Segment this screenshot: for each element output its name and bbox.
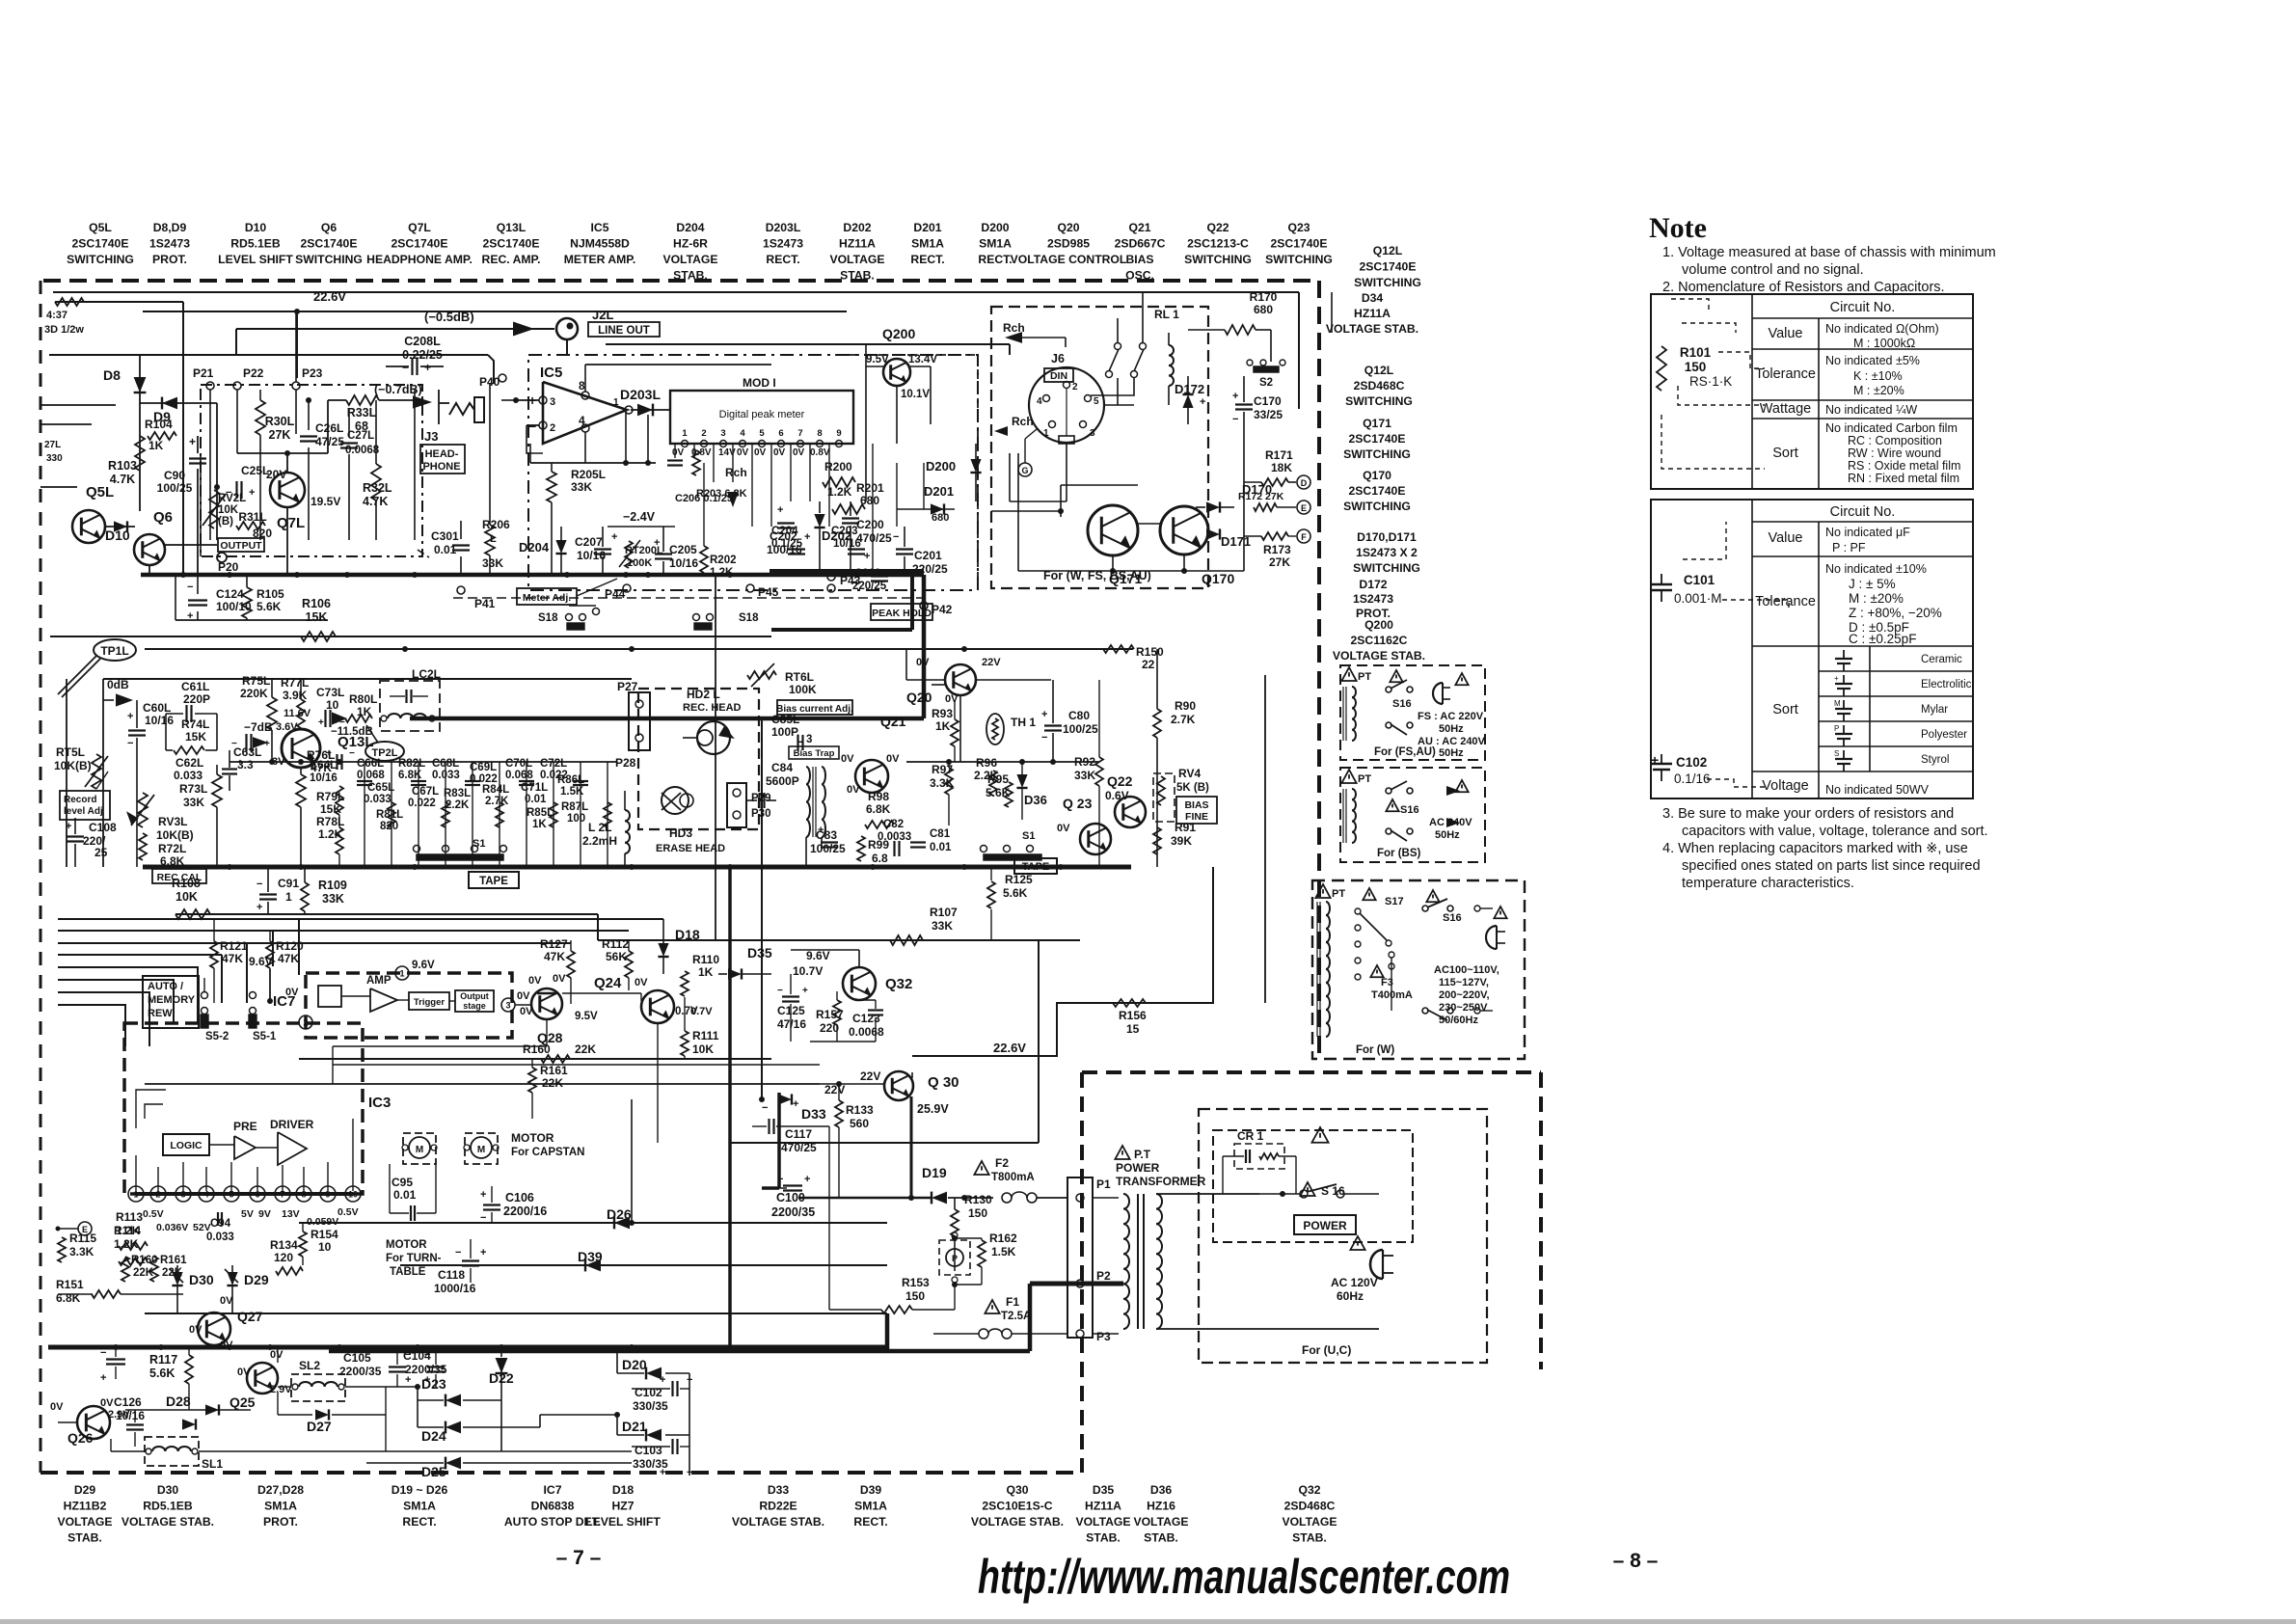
node TAPE label <box>469 872 519 888</box>
svg-text:Sort: Sort <box>1772 702 1798 717</box>
resistor R157 <box>816 991 844 1042</box>
resistor R201 <box>832 481 884 514</box>
svg-text:P29: P29 <box>751 793 770 804</box>
svg-text:K : ±10%: K : ±10% <box>1853 369 1903 383</box>
svg-text:SWITCHING: SWITCHING <box>67 253 134 266</box>
svg-text:RT6L: RT6L <box>785 670 814 684</box>
svg-text:R110: R110 <box>692 953 719 966</box>
svg-text:15K: 15K <box>185 730 206 744</box>
plug w <box>1486 907 1507 949</box>
for-bs dashed box <box>1340 768 1485 862</box>
svg-text:0V: 0V <box>754 447 767 458</box>
svg-text:0V: 0V <box>270 1349 284 1361</box>
node Q6 header label <box>295 221 363 266</box>
svg-text:Q12L: Q12L <box>1364 364 1394 377</box>
svg-text:0V: 0V <box>916 657 930 668</box>
capacitor C61L <box>166 680 217 722</box>
svg-text:10.1V: 10.1V <box>901 389 930 400</box>
svg-text:R78L: R78L <box>316 815 344 828</box>
svg-text:10/16: 10/16 <box>669 556 698 570</box>
capacitor C106 <box>480 1186 547 1224</box>
for-fsau dashed box <box>1340 665 1485 760</box>
node PEAK HOLD label <box>871 604 932 620</box>
inductor SL2 dashed <box>278 1359 420 1401</box>
svg-text:D170,D171: D170,D171 <box>1357 530 1417 544</box>
svg-text:50Hz: 50Hz <box>1439 723 1464 735</box>
svg-text:S16: S16 <box>1443 912 1462 924</box>
svg-text:2200/16: 2200/16 <box>503 1204 547 1218</box>
svg-text:SWITCHING: SWITCHING <box>1343 447 1411 461</box>
note table 2 headers <box>1755 504 1895 794</box>
svg-text:9V: 9V <box>258 1208 271 1220</box>
svg-text:LOGIC: LOGIC <box>170 1140 203 1151</box>
svg-text:0.5V: 0.5V <box>338 1206 359 1218</box>
svg-text:Q200: Q200 <box>882 326 915 341</box>
node bs voltages <box>1429 817 1472 841</box>
svg-text:P45: P45 <box>758 585 779 599</box>
svg-text:VOLTAGE: VOLTAGE <box>1133 1515 1188 1529</box>
svg-text:P: P <box>1834 724 1839 733</box>
svg-text:D200: D200 <box>981 221 1009 234</box>
node D34 label <box>1326 291 1418 336</box>
node POWER label <box>1294 1215 1356 1234</box>
svg-text:P22: P22 <box>243 366 264 380</box>
capacitor C301 <box>418 521 470 575</box>
resistor R104 <box>145 418 176 452</box>
schematic dashed border bottom <box>41 1471 1082 1475</box>
svg-text:D27,D28: D27,D28 <box>257 1483 304 1497</box>
svg-text:−: − <box>777 986 783 996</box>
transistor Q171 <box>1088 505 1142 586</box>
svg-text:2200/35: 2200/35 <box>771 1205 815 1219</box>
wire q32 net <box>791 950 876 1042</box>
switch S1 left <box>414 838 507 860</box>
svg-text:SL2: SL2 <box>299 1359 320 1372</box>
head HD2L <box>683 688 742 754</box>
svg-text:IC5: IC5 <box>591 221 609 234</box>
svg-text:0.059V: 0.059V <box>307 1216 338 1228</box>
svg-text:R121: R121 <box>220 939 248 953</box>
switch bs S16 <box>1386 780 1469 841</box>
svg-text:R95: R95 <box>987 772 1009 786</box>
node Q12L header label <box>1354 244 1421 289</box>
svg-text:For (U,C): For (U,C) <box>1302 1343 1351 1357</box>
svg-text:2SD468C: 2SD468C <box>1354 379 1405 392</box>
transistor Q24 <box>594 975 698 1023</box>
svg-text:TAPE: TAPE <box>1022 861 1050 873</box>
wire long rail 4 <box>58 955 222 1003</box>
svg-text:F2: F2 <box>995 1156 1009 1170</box>
svg-text:10/16: 10/16 <box>310 772 338 784</box>
svg-text:LEVEL SHIFT: LEVEL SHIFT <box>218 253 293 266</box>
diode D24 <box>418 1387 540 1444</box>
svg-text:+: + <box>804 1174 810 1185</box>
resistor R105 <box>242 575 284 620</box>
for-wfsbsau dashed box <box>991 307 1208 588</box>
wire Q7L collector <box>237 450 328 575</box>
svg-text:0V: 0V <box>528 975 542 987</box>
svg-text:SWITCHING: SWITCHING <box>295 253 363 266</box>
wire ic5 top <box>585 365 771 392</box>
node PRE label <box>233 1120 257 1133</box>
svg-text:3.3: 3.3 <box>237 758 254 771</box>
svg-text:S5-2: S5-2 <box>205 1031 229 1042</box>
svg-text:0V: 0V <box>841 753 854 765</box>
svg-text:C82: C82 <box>883 819 904 830</box>
capacitor C64L <box>310 748 355 784</box>
svg-text:Q26: Q26 <box>68 1430 94 1446</box>
page number 8 <box>1613 1550 1659 1572</box>
node D18 footer label <box>585 1483 661 1529</box>
svg-text:S18: S18 <box>538 612 558 624</box>
svg-text:STAB.: STAB. <box>1292 1531 1327 1545</box>
svg-text:1K: 1K <box>698 965 714 979</box>
svg-text:REC. HEAD: REC. HEAD <box>683 702 742 714</box>
node For WFSBSAU label <box>1043 569 1151 582</box>
svg-text:560: 560 <box>850 1117 869 1130</box>
capacitor C209 <box>852 568 888 592</box>
svg-text:10K: 10K <box>692 1042 714 1056</box>
note item 3 <box>1662 806 1988 839</box>
svg-text:D28: D28 <box>166 1394 191 1409</box>
capacitor C203 <box>831 526 870 562</box>
svg-text:19.5V: 19.5V <box>311 495 340 508</box>
wire ic3 internals <box>136 1090 353 1191</box>
svg-text:C73L: C73L <box>316 686 344 699</box>
svg-text:C203: C203 <box>831 526 858 537</box>
diode D27 <box>278 1387 386 1451</box>
svg-text:C205: C205 <box>669 543 697 556</box>
svg-text:R103: R103 <box>108 459 137 473</box>
node LINE OUT label <box>588 322 660 337</box>
svg-text:IC7: IC7 <box>544 1483 562 1497</box>
node Q20 header label <box>1011 221 1127 266</box>
wire for-w stub <box>1331 292 1333 333</box>
svg-text:R202: R202 <box>710 555 737 566</box>
ic7 internals <box>299 960 515 1029</box>
inductor SL1 dashed <box>111 1437 632 1471</box>
svg-text:25.9V: 25.9V <box>917 1102 949 1116</box>
svg-text:VOLTAGE STAB.: VOLTAGE STAB. <box>732 1515 824 1529</box>
for-w dashed box <box>1312 880 1525 1059</box>
svg-text:S1: S1 <box>473 838 485 850</box>
svg-text:50Hz: 50Hz <box>1439 747 1464 759</box>
svg-text:0dB: 0dB <box>107 678 129 691</box>
svg-text:C60L: C60L <box>143 701 171 715</box>
svg-text:No indicated 50WV: No indicated 50WV <box>1825 783 1930 797</box>
svg-text:R107: R107 <box>930 906 958 919</box>
wire q200 rail <box>606 344 1010 355</box>
svg-text:5.6K: 5.6K <box>1003 886 1028 900</box>
svg-text:FS : AC 220V: FS : AC 220V <box>1418 711 1484 722</box>
svg-text:22V: 22V <box>824 1083 845 1096</box>
svg-text:Bias Trap: Bias Trap <box>794 748 835 759</box>
wire ic7 band bottom <box>299 1058 771 1060</box>
svg-text:2SC1162C: 2SC1162C <box>1351 634 1408 647</box>
node Q5L header label <box>67 221 134 266</box>
svg-text:Q200: Q200 <box>1364 618 1393 632</box>
svg-text:SM1A: SM1A <box>854 1500 887 1513</box>
note table 1 values <box>1825 322 1960 485</box>
wire record mid rail <box>230 759 617 765</box>
svg-text:R173: R173 <box>1263 543 1291 556</box>
node D36 footer label <box>1133 1483 1188 1545</box>
svg-text:+: + <box>1651 752 1659 768</box>
diode D30 small <box>170 1265 214 1313</box>
svg-text:2SD985: 2SD985 <box>1047 237 1090 251</box>
resistor R150 <box>1103 645 1164 671</box>
svg-text:33K: 33K <box>482 556 503 570</box>
svg-text:TRANSFORMER: TRANSFORMER <box>1116 1175 1206 1188</box>
svg-text:27K: 27K <box>1269 555 1290 569</box>
op-amp IC5 <box>528 379 633 444</box>
wire meter bottom rail <box>530 410 656 466</box>
svg-text:Wattage: Wattage <box>1760 401 1811 417</box>
svg-text:−2.4V: −2.4V <box>623 510 656 524</box>
svg-text:Note: Note <box>1649 212 1707 244</box>
wire q170 nets <box>991 453 1244 574</box>
arrow -0.5dB <box>424 310 534 337</box>
diode D33 <box>762 1094 826 1122</box>
svg-text:470/25: 470/25 <box>856 531 892 545</box>
resistor R125 <box>987 867 1033 940</box>
svg-text:LC2L: LC2L <box>412 667 441 681</box>
svg-text:0.022: 0.022 <box>408 798 436 809</box>
svg-text:R162: R162 <box>989 1232 1017 1245</box>
diode D170 <box>1196 482 1272 513</box>
node D27,D28 footer label <box>257 1483 304 1529</box>
svg-text:P3: P3 <box>1096 1330 1111 1343</box>
note table 2 frame <box>1651 500 1973 798</box>
svg-text:temperature characteristics.: temperature characteristics. <box>1682 876 1854 891</box>
wire output box right <box>201 390 415 556</box>
svg-text:R109: R109 <box>318 879 347 892</box>
svg-text:100/25: 100/25 <box>810 842 846 855</box>
svg-text:SWITCHING: SWITCHING <box>1343 500 1411 513</box>
svg-text:100/10: 100/10 <box>216 600 252 613</box>
svg-text:6.8K: 6.8K <box>160 854 185 868</box>
svg-text:C65L: C65L <box>367 782 394 794</box>
svg-text:SM1A: SM1A <box>403 1500 436 1513</box>
svg-text:RECT.: RECT. <box>853 1515 887 1529</box>
svg-text:C102: C102 <box>635 1386 662 1399</box>
svg-text:1S2473: 1S2473 <box>763 237 803 251</box>
node 22.6V label <box>313 289 346 304</box>
node Rch meter <box>725 466 747 507</box>
svg-text:specified ones stated on parts: specified ones stated on parts list sinc… <box>1682 858 1981 874</box>
svg-text:C208L: C208L <box>404 335 441 348</box>
svg-text:HEADPHONE AMP.: HEADPHONE AMP. <box>366 253 473 266</box>
svg-text:Q5L: Q5L <box>89 221 112 234</box>
svg-text:1: 1 <box>613 397 619 408</box>
svg-text:C71L: C71L <box>521 782 548 794</box>
svg-text:R98: R98 <box>868 790 889 803</box>
resistor R154 <box>299 1223 338 1265</box>
diode D201 <box>897 484 955 524</box>
svg-text:RW : Wire wound: RW : Wire wound <box>1848 447 1941 460</box>
wire Q6 net <box>149 545 217 575</box>
resistor R75L <box>240 674 277 762</box>
node MOTOR For CAPSTAN <box>511 1131 584 1158</box>
svg-text:RECT.: RECT. <box>978 253 1012 266</box>
node D33 footer label <box>732 1483 824 1529</box>
svg-text:F: F <box>1301 532 1307 542</box>
wire r105 rail <box>176 575 328 620</box>
svg-text:RV2L: RV2L <box>218 493 246 504</box>
switch S5-1 <box>249 992 277 1043</box>
resistor R205L <box>547 463 606 575</box>
svg-text:RECT.: RECT. <box>402 1515 436 1529</box>
svg-text:Electrolitic: Electrolitic <box>1921 679 1972 690</box>
note table 1 frame <box>1651 294 1973 489</box>
svg-text:+: + <box>424 361 431 374</box>
svg-text:RD5.1EB: RD5.1EB <box>230 237 281 251</box>
svg-text:−: − <box>528 419 536 434</box>
switch S18 left <box>538 606 600 630</box>
node D19 ~ D26 footer label <box>392 1483 448 1529</box>
trimmer RT200L <box>619 540 663 569</box>
svg-text:D18: D18 <box>612 1483 635 1497</box>
node Q30 footer label <box>971 1483 1064 1529</box>
svg-text:DRIVER: DRIVER <box>270 1118 314 1131</box>
node D204 header label <box>662 221 717 283</box>
resistor R170 <box>1188 290 1278 362</box>
svg-text:S17: S17 <box>1385 896 1404 907</box>
svg-text:F1: F1 <box>1006 1295 1019 1309</box>
svg-text:0V: 0V <box>1057 823 1070 834</box>
node D9 label <box>153 409 171 424</box>
node P21 P22 P23 <box>193 311 323 540</box>
capacitor C200 <box>842 501 892 575</box>
svg-text:2SD468C: 2SD468C <box>1284 1500 1336 1513</box>
transistor Q22 <box>1105 773 1146 827</box>
svg-text:3: 3 <box>505 1001 510 1011</box>
svg-text:22K: 22K <box>133 1267 154 1279</box>
node LOGIC box <box>163 1134 209 1155</box>
svg-text:C207: C207 <box>575 535 603 549</box>
switch w S17 <box>1355 888 1404 980</box>
svg-text:L 3: L 3 <box>797 734 812 745</box>
svg-text:C63L: C63L <box>233 745 261 759</box>
svg-text:RV4: RV4 <box>1178 767 1201 780</box>
resistor R121 <box>210 919 248 1003</box>
diode D26 <box>607 1206 632 1229</box>
svg-text:M : ±20%: M : ±20% <box>1853 384 1904 397</box>
node P44 <box>605 584 631 601</box>
svg-text:SWITCHING: SWITCHING <box>1354 276 1421 289</box>
capacitor C123 <box>849 1000 884 1042</box>
svg-text:Rch: Rch <box>725 466 747 479</box>
svg-text:115~127V,: 115~127V, <box>1439 977 1489 988</box>
svg-text:R31L: R31L <box>238 510 266 524</box>
svg-text:22K: 22K <box>575 1042 596 1056</box>
diode D25 <box>366 1451 632 1479</box>
resistor R130 <box>951 1193 992 1271</box>
wire ic5 in <box>501 397 543 453</box>
trimmer RV2L <box>203 490 246 528</box>
svg-text:1.2K: 1.2K <box>318 827 343 841</box>
connector J2L jack <box>556 318 578 355</box>
svg-text:D39: D39 <box>860 1483 882 1497</box>
svg-text:−: − <box>455 1247 461 1259</box>
svg-text:4. When replacing capacitors m: 4. When replacing capacitors marked with… <box>1662 841 1968 856</box>
svg-text:LINE OUT: LINE OUT <box>598 325 650 337</box>
node IC5 header label <box>564 221 636 266</box>
output section dashed box <box>201 385 422 556</box>
transformer fsau <box>1341 667 1371 741</box>
ic3 pin voltages <box>143 1206 359 1233</box>
wire j6 nets <box>1010 378 1134 501</box>
svg-text:R127: R127 <box>540 937 568 951</box>
ic7 dashed box <box>306 973 512 1038</box>
arrow -0.7dB <box>374 383 432 409</box>
svg-text:3.3K: 3.3K <box>69 1245 95 1259</box>
svg-text:5K (B): 5K (B) <box>1176 782 1209 794</box>
transformer secondary coil <box>1156 1194 1162 1329</box>
svg-text:−: − <box>893 531 899 543</box>
wire bus P2 feed <box>887 1284 1123 1351</box>
svg-text:100/25: 100/25 <box>1063 722 1098 736</box>
svg-text:R133: R133 <box>846 1103 874 1117</box>
node D35 footer label <box>1075 1483 1130 1545</box>
svg-text:2SC1740E: 2SC1740E <box>1271 237 1328 251</box>
svg-text:RECT.: RECT. <box>766 253 799 266</box>
svg-text:For (BS): For (BS) <box>1377 848 1421 859</box>
svg-text:R82L: R82L <box>398 758 425 770</box>
node D172 right label <box>1353 578 1393 620</box>
wire long rail 1 <box>58 919 663 975</box>
note item 2 <box>1662 280 1945 295</box>
svg-text:C : ±0.25pF: C : ±0.25pF <box>1849 632 1916 646</box>
svg-text:HZ11A: HZ11A <box>1085 1500 1121 1513</box>
wire heavy corner <box>771 575 912 630</box>
node MOTOR For TURNTABLE <box>386 1239 442 1278</box>
svg-text:C80: C80 <box>1068 709 1090 722</box>
wire bottom verticals <box>94 1345 278 1451</box>
node Q32 footer label <box>1282 1483 1337 1545</box>
svg-text:TP1L: TP1L <box>100 644 128 658</box>
svg-text:1S2473 X 2: 1S2473 X 2 <box>1356 546 1418 559</box>
meter pins <box>682 428 843 447</box>
resistor R77L <box>276 676 311 733</box>
amp triangle pre <box>209 1136 256 1159</box>
capacitor C101 legend symbol <box>1651 522 1789 608</box>
svg-text:4:37: 4:37 <box>46 310 68 321</box>
svg-text:P: P <box>952 1254 958 1263</box>
wire meter verticals <box>675 444 829 527</box>
svg-text:8: 8 <box>579 379 585 392</box>
node D28 label <box>166 1394 191 1409</box>
svg-text:10/16: 10/16 <box>116 1409 145 1422</box>
node fsau voltages <box>1418 711 1486 759</box>
node E circle <box>56 1222 93 1235</box>
svg-text:IC3: IC3 <box>368 1095 391 1111</box>
svg-text:56K: 56K <box>606 950 627 963</box>
node D200 <box>926 444 982 501</box>
svg-text:1: 1 <box>285 890 292 904</box>
test point TP1L <box>58 639 136 697</box>
svg-text:J6: J6 <box>1051 352 1065 365</box>
svg-text:MOD I: MOD I <box>743 376 776 390</box>
svg-text:11.6V: 11.6V <box>284 708 311 719</box>
svg-text:+: + <box>249 487 255 499</box>
svg-text:22.6V: 22.6V <box>313 289 346 304</box>
svg-text:For CAPSTAN: For CAPSTAN <box>511 1147 584 1158</box>
wire rec-head heavy line <box>410 575 924 718</box>
resistor R113 <box>116 1210 148 1250</box>
svg-text:0.22/25: 0.22/25 <box>402 348 443 362</box>
wire diode matrix rail1 <box>299 1222 887 1224</box>
